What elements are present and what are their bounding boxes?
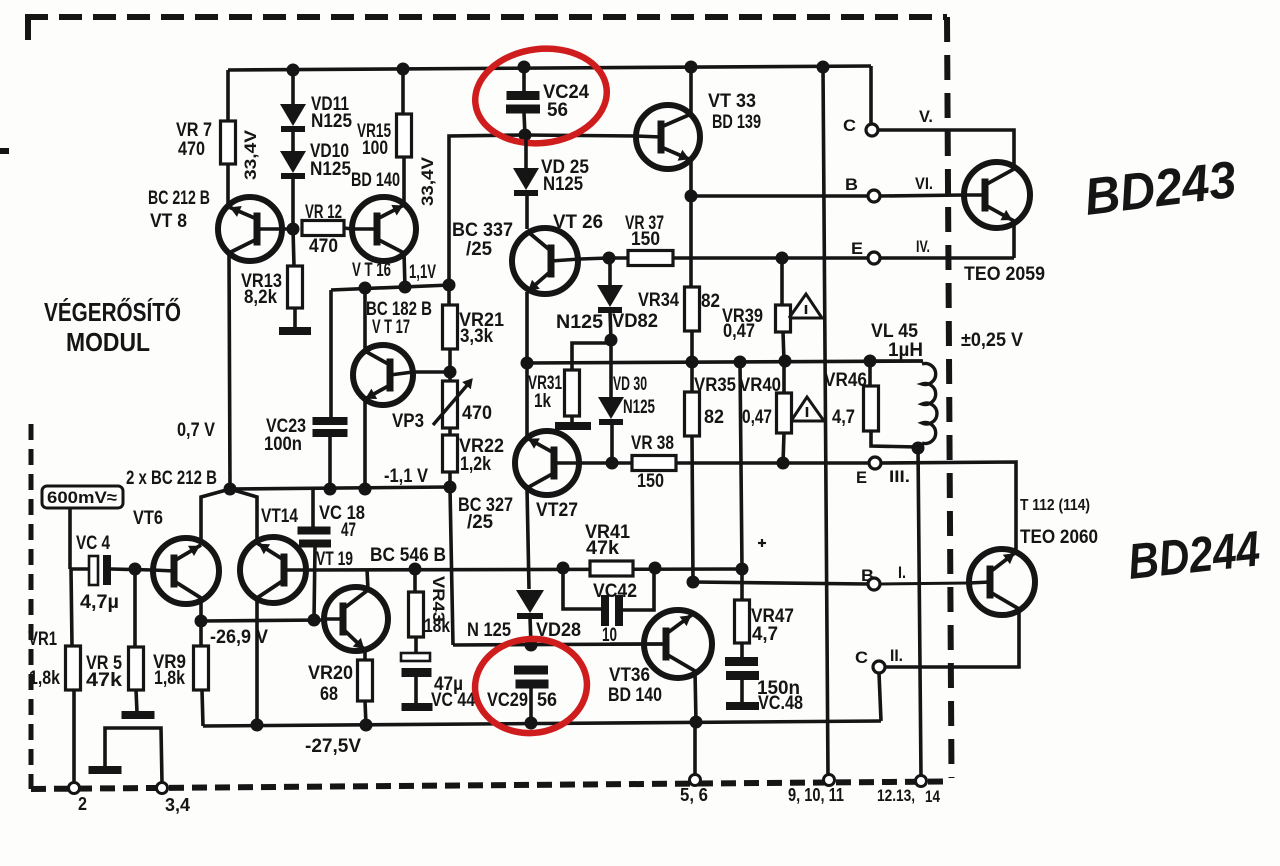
- resistor VR31: [565, 370, 580, 416]
- svg-text:VR20: VR20: [308, 663, 353, 684]
- junction VC4 node / VR5: [129, 563, 142, 576]
- wire VC29 to -27.5V bus: [529, 688, 533, 723]
- junction Y node: [224, 483, 237, 496]
- wire to VR21: [447, 285, 451, 305]
- junction VC29 / -27.5V bus: [525, 717, 538, 730]
- svg-text:N125: N125: [311, 111, 352, 132]
- wire top rail to VR15: [401, 69, 405, 114]
- wire VR34 to mid bus: [690, 331, 694, 362]
- wire mid bus to VT27 collector: [525, 363, 529, 438]
- wire VD10 to VT8 base node: [291, 174, 295, 229]
- svg-text:VR1: VR1: [28, 629, 57, 650]
- svg-text:IV.: IV.: [916, 237, 930, 256]
- wire mid bus to VR40: [782, 361, 786, 393]
- svg-text:82: 82: [701, 291, 720, 312]
- svg-text:B: B: [861, 566, 874, 585]
- svg-text:BC 546 B: BC 546 B: [370, 545, 446, 566]
- junction VC24 node: [519, 129, 532, 142]
- wire -1.1V bus: [230, 487, 450, 489]
- red marking circle around VC24: [470, 41, 612, 150]
- svg-text:100: 100: [362, 138, 388, 159]
- wire top rail to VT33 collector: [689, 67, 693, 114]
- junction VT17 collector / 1.1V line: [359, 282, 372, 295]
- resistor VR47: [735, 600, 750, 643]
- svg-text:0,7 V: 0,7 V: [177, 420, 215, 441]
- svg-text:-27,5V: -27,5V: [305, 736, 361, 757]
- svg-text:TEO 2059: TEO 2059: [964, 264, 1045, 285]
- wire VC24 to node: [524, 113, 525, 135]
- resistor VR5: [129, 647, 144, 690]
- svg-text:TEO 2060: TEO 2060: [1020, 527, 1098, 548]
- wire ground hook near terminal 3,4: [105, 728, 162, 783]
- wire C-II terminal down to -27.5V bus: [879, 673, 881, 721]
- transistor VT16: [352, 197, 416, 261]
- junction top rail / VR15: [397, 63, 410, 76]
- junction VL45 bottom: [912, 442, 925, 455]
- wire VT19 collector to B bus: [367, 569, 368, 590]
- module boundary dashed border, stray left dash: [0, 148, 9, 154]
- wire VT17 emitter to -1.1V bus: [363, 399, 367, 488]
- resistor VR34: [685, 287, 700, 331]
- svg-text:N125: N125: [623, 397, 655, 418]
- resistor VR22: [443, 435, 458, 472]
- svg-text:150: 150: [631, 229, 660, 250]
- junction VR20 / -27.5V bus: [360, 719, 373, 732]
- svg-text:56: 56: [537, 690, 557, 711]
- red marking circle around VC29: [471, 634, 591, 737]
- junction top rail / 9-10-11 rail: [817, 61, 830, 74]
- junction B-I line / VT36 emitter: [687, 576, 700, 589]
- resistor VR43: [409, 592, 424, 637]
- junction VC42 right / B bus: [649, 562, 662, 575]
- wire VC24 node to VR21 chain: [449, 135, 525, 285]
- svg-text:VP3: VP3: [392, 411, 424, 432]
- svg-text:VR 38: VR 38: [631, 433, 674, 454]
- resistor VR39: [776, 305, 791, 332]
- wire top supply rail: [228, 66, 871, 70]
- wire VT14 collector down to -27.5V bus: [255, 598, 259, 725]
- warning triangle near VR39: [789, 294, 822, 318]
- svg-text:VT 8: VT 8: [150, 211, 187, 232]
- svg-text:82: 82: [704, 407, 724, 428]
- capacitor VC18: [298, 527, 331, 535]
- wire VD11 to VD10: [291, 131, 295, 151]
- wire VR40 to E-III line: [783, 433, 784, 463]
- wire VR43 stub: [413, 569, 417, 592]
- capacitor VC4 (electrolytic): [89, 556, 98, 585]
- module boundary dashed border, right edge: [947, 17, 952, 778]
- wire VT8 down to differential pair node: [229, 253, 230, 488]
- wire mid bus to VR46: [868, 361, 872, 386]
- wire B terminal to BD244 base: [880, 583, 969, 584]
- svg-text:56: 56: [547, 100, 568, 121]
- wire top rail to VD11: [291, 70, 295, 104]
- capacitor VC29: [514, 666, 548, 675]
- junction mid bus / VR47 drop: [734, 356, 747, 369]
- svg-text:18k: 18k: [424, 616, 450, 637]
- capacitor VC23: [313, 417, 348, 425]
- wire VR31 branch: [572, 343, 611, 370]
- wire VT27 emitter down across B bus: [527, 488, 529, 589]
- wire VR7 top stub: [226, 70, 230, 121]
- wire VT36 base line: [453, 644, 662, 645]
- transistor VT6: [153, 538, 219, 604]
- svg-text:V.: V.: [919, 107, 933, 126]
- wire VT36 collector node to terminal 5,6: [693, 722, 697, 776]
- svg-text:1k: 1k: [534, 391, 551, 412]
- wire VT6 collector to -26.9V line: [199, 598, 203, 621]
- transistor VT33: [636, 105, 700, 169]
- scan artifact mark: [758, 542, 766, 544]
- wire E-IV line right of terminal: [880, 256, 1014, 260]
- svg-text:-26,9 V: -26,9 V: [210, 627, 268, 648]
- junction top rail / VT33: [685, 61, 698, 74]
- ground bar below VR5: [122, 711, 155, 719]
- transistor VT36: [610, 610, 712, 678]
- svg-text:BD 140: BD 140: [608, 685, 662, 706]
- wire C terminal to BD243 collector: [878, 130, 1014, 169]
- resistor VR37: [628, 251, 673, 266]
- transistor VT14: [240, 537, 306, 603]
- wire VR9 stub: [199, 621, 203, 646]
- svg-text:MODUL: MODUL: [66, 327, 150, 357]
- terminal circle C (II.): [873, 661, 885, 673]
- diode VD28: [516, 590, 544, 613]
- terminal circle pin 9,10,11: [824, 775, 835, 786]
- wire VC18 to VT19 base line: [314, 547, 315, 620]
- wire mid bus to VR35: [690, 362, 694, 392]
- svg-text:/25: /25: [467, 512, 493, 533]
- terminal bar below VC48: [726, 702, 759, 710]
- svg-text:VT6: VT6: [133, 508, 163, 529]
- wire VL45 node to terminal 12,13: [918, 447, 921, 777]
- wire VR43 to VC44: [414, 637, 418, 654]
- ground bar near terminal 2: [89, 766, 122, 774]
- junction mid bus / VT26-VT27: [521, 357, 534, 370]
- terminal circle pin 3,4: [157, 783, 168, 794]
- terminal bar below VR31: [555, 422, 591, 430]
- junction VT14 / -27.5V bus: [251, 719, 264, 732]
- terminal circle B (VI.): [868, 190, 880, 202]
- svg-text:0,47: 0,47: [742, 407, 772, 428]
- transistor BD243 (external): [964, 162, 1030, 228]
- potentiometer VP3: [443, 381, 458, 428]
- transistor VT27: [515, 431, 580, 495]
- svg-text:2 x BC 212 B: 2 x BC 212 B: [126, 468, 217, 489]
- wire VD30 stub: [609, 340, 613, 397]
- svg-text:4,7µ: 4,7µ: [80, 592, 119, 613]
- svg-text:VL 45: VL 45: [871, 321, 918, 342]
- resistor VR1: [66, 646, 81, 690]
- wire VR9 to -27.5V bus: [202, 690, 203, 726]
- wire B terminal to BD243 base: [880, 195, 965, 196]
- svg-text:68: 68: [320, 684, 338, 705]
- terminal circle C (V.): [866, 124, 878, 136]
- svg-text:5, 6: 5, 6: [680, 785, 708, 805]
- wire input node to VC4: [70, 567, 89, 571]
- wire E-III line right of terminal: [881, 462, 1016, 552]
- svg-text:BC 212 B: BC 212 B: [148, 188, 210, 209]
- svg-text:VC 4: VC 4: [76, 533, 110, 554]
- wire -26.9V line: [201, 620, 324, 621]
- svg-text:N125: N125: [543, 174, 583, 195]
- svg-text:VT 26: VT 26: [553, 212, 603, 233]
- junction VT36 / -27.5V bus: [690, 716, 703, 729]
- svg-text:47k: 47k: [86, 670, 122, 691]
- svg-text:VR35: VR35: [694, 375, 736, 396]
- junction VC42 left / B bus: [557, 562, 570, 575]
- svg-text:-1,1 V: -1,1 V: [384, 466, 428, 487]
- svg-text:N 125: N 125: [467, 620, 511, 641]
- terminal circle B (I.): [868, 578, 880, 590]
- wire BD244 emitter to C-II line: [885, 609, 1019, 667]
- wire VT17 base: [413, 370, 450, 374]
- svg-text:C: C: [855, 648, 868, 667]
- svg-text:1,2k: 1,2k: [460, 454, 491, 475]
- capacitor VC24: [507, 91, 540, 100]
- wire VT33 emitter to B line: [689, 160, 693, 196]
- capacitor VC48: [725, 657, 758, 666]
- junction VR31 / diode chain: [605, 334, 618, 347]
- wire VD82 to VD30 node: [610, 311, 611, 340]
- svg-text:T 112 (114): T 112 (114): [1020, 497, 1090, 514]
- wire VR47 stub: [740, 569, 744, 600]
- wire VD30 node to VR38: [612, 461, 632, 465]
- wire 600mV to input node: [68, 508, 72, 569]
- inductor VL45: [870, 359, 922, 363]
- wire VC42 left branch: [563, 568, 601, 609]
- junction mid bus / VR34-VR35: [686, 356, 699, 369]
- terminal circle pin 12,13,14: [916, 776, 927, 787]
- svg-text:33,4V: 33,4V: [241, 129, 260, 180]
- resistor VR41: [590, 561, 633, 576]
- svg-text:0,47: 0,47: [723, 321, 755, 342]
- resistor VR38: [632, 456, 676, 471]
- wire VD25 to VT26: [525, 194, 529, 229]
- svg-text:N125: N125: [310, 159, 351, 180]
- svg-text:V T 16: V T 16: [352, 260, 391, 281]
- svg-text:N125: N125: [556, 312, 603, 333]
- svg-text:VR 12: VR 12: [305, 202, 342, 223]
- svg-text:VT27: VT27: [536, 500, 578, 521]
- transistor VT26: [512, 228, 580, 294]
- module boundary dashed border, left edge: [29, 424, 34, 789]
- svg-text:B: B: [845, 175, 858, 194]
- svg-text:VR40: VR40: [739, 375, 781, 396]
- svg-text:1µH: 1µH: [888, 340, 923, 361]
- module boundary dashed border, top edge: [25, 14, 947, 20]
- wire VT33 emitter node to VR34: [689, 196, 693, 287]
- terminal circle E (III.): [869, 457, 881, 469]
- junction VD28 / VT36 base line: [525, 639, 538, 652]
- wire 1,1V line: [331, 285, 450, 290]
- junction VR40 / E-III line: [777, 457, 790, 470]
- svg-text:1,1V: 1,1V: [409, 262, 436, 283]
- svg-text:BD 139: BD 139: [712, 112, 761, 133]
- svg-text:470: 470: [178, 139, 205, 160]
- wire VR31 to end bar: [570, 416, 574, 424]
- svg-text:V T 17: V T 17: [372, 317, 410, 338]
- svg-text:VT 33: VT 33: [708, 91, 756, 112]
- resistor VR21: [443, 305, 458, 349]
- wire VT27 base stub: [580, 461, 612, 465]
- svg-text:I.: I.: [898, 563, 906, 582]
- diode VD10: [280, 151, 306, 173]
- junction VC18 / -26.9V line: [308, 614, 321, 627]
- transistor VT8: [218, 197, 293, 261]
- wire VR15 to VT16: [402, 157, 406, 205]
- wire VR20 to -27.5V bus: [365, 701, 366, 725]
- terminal circle pin 5,6: [690, 775, 701, 786]
- svg-text:14: 14: [925, 787, 940, 806]
- wire VC48 to end bar: [740, 680, 744, 702]
- wire VC18 branch from -1.1V bus: [311, 490, 315, 527]
- junction VD30 / VT27 base line: [606, 457, 619, 470]
- wire VT26 base to VD82 node: [580, 258, 609, 259]
- svg-text:VC 44: VC 44: [431, 690, 475, 711]
- svg-text:8,2k: 8,2k: [244, 287, 277, 308]
- diode VD25: [513, 168, 539, 190]
- junction 1.1V line / VR21 chain: [443, 279, 456, 292]
- svg-text:33,4V: 33,4V: [418, 156, 437, 206]
- svg-text:VR 7: VR 7: [176, 120, 212, 141]
- wire BD243 emitter drop: [1012, 221, 1016, 258]
- junction VT17 emitter / -1.1V bus: [359, 483, 372, 496]
- wire VR1 to terminal 2: [72, 690, 76, 783]
- wire VR35 down across E-III line to B-I junction: [692, 436, 693, 582]
- resistor VR40: [777, 393, 792, 433]
- warning triangle near VR40: [791, 397, 824, 421]
- diode VD11: [280, 104, 306, 126]
- svg-text:150: 150: [637, 471, 664, 492]
- junction mid bus / VR39-VR40: [779, 355, 792, 368]
- svg-text:12.13,: 12.13,: [877, 786, 915, 805]
- wire VC24 node to VD25: [524, 135, 528, 168]
- wire VD82 stub: [608, 258, 612, 285]
- wire -1.1V node down to VD28 line: [450, 488, 453, 645]
- junction mid bus / VR46-VL45: [864, 355, 877, 368]
- junction VD82 top node: [603, 252, 616, 265]
- svg-text:VI.: VI.: [915, 174, 933, 193]
- wire VT26 emitter down to mid bus: [525, 292, 529, 363]
- wire VR37 to E terminal: [673, 256, 868, 260]
- resistor VR13: [288, 266, 303, 308]
- transistor VT17: [353, 345, 413, 405]
- svg-text:47k: 47k: [586, 538, 619, 559]
- wire VR39 to mid bus: [783, 332, 784, 361]
- capacitor VC44 (electrolytic): [401, 653, 430, 661]
- junction VR43 / B bus: [409, 563, 422, 576]
- junction VT16 / 1.1V line: [399, 281, 412, 294]
- wire VR7 to VT8: [226, 164, 230, 207]
- wire VC44 to end bar: [414, 677, 418, 703]
- svg-text:100n: 100n: [264, 434, 302, 455]
- wire VD82 node to VR37: [609, 256, 628, 260]
- wire VT16 to 1.1V node: [404, 253, 405, 287]
- svg-text:1,8k: 1,8k: [154, 668, 185, 689]
- diode VD30: [598, 397, 624, 419]
- svg-text:2: 2: [78, 794, 87, 814]
- junction VR39 / E-IV line: [776, 252, 789, 265]
- resistor VR46: [864, 386, 879, 431]
- wire VR5 to ground: [136, 690, 137, 712]
- svg-text:9, 10, 11: 9, 10, 11: [788, 785, 844, 805]
- wire -27.5V bus: [203, 721, 881, 726]
- svg-text:4,7: 4,7: [832, 407, 855, 428]
- module boundary dashed border, bottom edge: [31, 782, 949, 790]
- wire VC24 node to VT33 base: [525, 135, 636, 136]
- wire VR12 to VT16 base: [344, 228, 352, 229]
- wire differential pair Y node: [201, 489, 230, 543]
- ground bar below VR13: [279, 327, 311, 335]
- wire VC23 to -1.1V bus: [328, 437, 332, 489]
- resistor VR12: [302, 221, 344, 236]
- svg-text:VC.48: VC.48: [758, 693, 803, 714]
- junction VT33 emitter / B-VI line: [685, 190, 698, 203]
- boxed source label 600mV: [42, 486, 123, 508]
- wire mid bus: [526, 361, 923, 363]
- resistor VR9: [194, 646, 209, 690]
- junction VR47 / B bus end: [736, 563, 749, 576]
- junction top rail / VC24: [518, 61, 531, 74]
- wire B-VI line: [691, 194, 868, 198]
- wire VR47 to VC48: [740, 643, 744, 658]
- svg-text:VD 30: VD 30: [613, 374, 647, 395]
- wire VT8 base node to VR13: [293, 229, 294, 266]
- svg-text:3,4: 3,4: [165, 795, 190, 815]
- wire E-III line: [676, 461, 868, 465]
- svg-text:VR46: VR46: [824, 370, 867, 391]
- wire VR22 to -1.1V bus: [448, 472, 452, 488]
- wire VR46 to bottom node: [871, 431, 918, 447]
- svg-text:C: C: [843, 116, 856, 135]
- resistor VR7: [221, 121, 236, 164]
- wire VD28 to VC29 node: [530, 617, 531, 645]
- junction VT8 base node: [287, 223, 300, 236]
- transistor VT19: [324, 587, 388, 651]
- svg-text:VÉGERŐSÍTŐ: VÉGERŐSÍTŐ: [44, 297, 181, 327]
- diode VD82: [597, 285, 623, 307]
- svg-text:BD 140: BD 140: [351, 170, 400, 191]
- wire VT17 collector: [363, 288, 367, 351]
- svg-text:E: E: [856, 468, 867, 487]
- terminal circle E (IV.): [868, 252, 880, 264]
- wire B feedback bus: [306, 569, 742, 570]
- junction VR22 / -1.1V bus: [444, 481, 457, 494]
- svg-text:BC 337: BC 337: [452, 220, 513, 241]
- wire VR21 to VP3: [448, 349, 452, 381]
- wire VC4 node to VR5: [133, 569, 137, 647]
- transistor BD244 (external): [969, 549, 1035, 615]
- svg-text:VC42: VC42: [593, 581, 637, 602]
- wire VT36 collector to -27.5V bus: [695, 671, 696, 722]
- svg-text:/25: /25: [466, 239, 492, 260]
- svg-text:VD82: VD82: [612, 311, 658, 332]
- resistor VR20: [358, 660, 373, 701]
- junction VT17 base / VR21-VP3: [444, 366, 457, 379]
- svg-text:470: 470: [462, 403, 492, 424]
- wire supply rail to terminal 9,10,11: [823, 67, 828, 776]
- svg-text:II.: II.: [890, 646, 903, 665]
- svg-text:III.: III.: [889, 467, 910, 486]
- wire E-IV line to VR39: [780, 258, 784, 305]
- wire VC24 top stub: [522, 67, 526, 91]
- svg-text:600mV≈: 600mV≈: [47, 488, 117, 507]
- junction VT6 / VR9 / -26.9V line: [195, 615, 208, 628]
- wire VT19 emitter to VR20: [363, 650, 367, 660]
- wire VC23 top stub: [329, 290, 333, 418]
- wire VP3 to VR22: [448, 428, 452, 435]
